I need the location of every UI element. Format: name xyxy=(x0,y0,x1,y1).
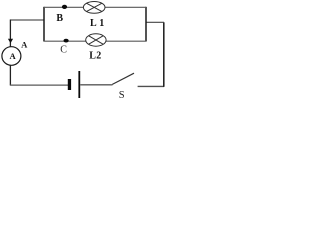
wire: jog between lamp bus and right vertical xyxy=(146,21,164,23)
wire: bottom branch left segment xyxy=(44,40,86,42)
svg-text:A: A xyxy=(21,39,28,49)
svg-text:C: C xyxy=(60,45,67,56)
node B junction dot xyxy=(62,5,67,9)
wire: ammeter bottom to bottom rail xyxy=(9,65,11,85)
wire: top branch right segment xyxy=(105,6,146,8)
ammeter A xyxy=(2,47,21,66)
current direction arrow into ammeter xyxy=(8,39,13,43)
svg-text:S: S xyxy=(119,90,125,100)
wire: middle horizontal from corner to left bus bar xyxy=(10,19,44,21)
battery: short thick negative plate xyxy=(68,79,71,90)
wire: right vertical xyxy=(163,22,165,87)
wire: right bus bar of parallel lamps xyxy=(145,7,147,42)
wire: left bus bar of parallel lamps xyxy=(43,7,45,42)
wire: bottom rail left section to battery xyxy=(10,84,68,86)
wire: battery to switch pivot xyxy=(80,84,112,86)
wire: bottom branch right segment xyxy=(106,40,146,42)
lamp L1 xyxy=(83,2,105,14)
node C junction dot xyxy=(64,39,69,43)
lamp L2 xyxy=(86,34,106,46)
svg-text:L2: L2 xyxy=(89,51,101,62)
wire: top branch left segment xyxy=(44,6,83,8)
switch S blade xyxy=(112,73,134,84)
wire: left vertical down to ammeter xyxy=(9,20,11,47)
battery: long thin positive plate xyxy=(78,71,80,98)
svg-text:A: A xyxy=(10,51,17,61)
svg-text:B: B xyxy=(56,13,63,24)
wire: switch right contact to right corner xyxy=(138,85,164,87)
